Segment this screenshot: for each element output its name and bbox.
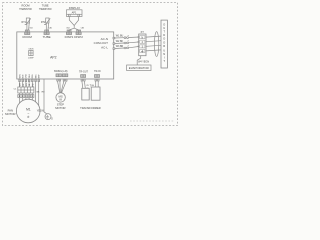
svg-text:EVAPORATOR: EVAPORATOR bbox=[129, 66, 149, 70]
svg-text:N: N bbox=[141, 36, 143, 39]
thermistor RT1 bbox=[25, 18, 31, 25]
svg-text:JUMP: JUMP bbox=[28, 57, 34, 59]
grounding wire YEGN from board bbox=[44, 79, 47, 114]
wire colour labels on wires bbox=[20, 83, 35, 87]
wires XT to outdoor unit bbox=[146, 36, 161, 51]
svg-text:W1 BU: W1 BU bbox=[116, 34, 124, 37]
svg-text:RT1: RT1 bbox=[22, 21, 27, 24]
svg-text:G: G bbox=[51, 117, 53, 120]
outdoor unit bbox=[161, 20, 167, 68]
svg-text:YEGN: YEGN bbox=[37, 109, 44, 112]
svg-text:TUBE: TUBE bbox=[43, 35, 51, 39]
connector designators (tiny) bbox=[29, 28, 84, 30]
jumper JUMP (CN26) bbox=[29, 50, 33, 55]
step motor MS bbox=[56, 93, 65, 102]
terminal 3 bbox=[140, 45, 145, 48]
svg-text:ROOM: ROOM bbox=[21, 3, 29, 7]
svg-text:SWING(-LR): SWING(-LR) bbox=[54, 70, 68, 73]
svg-text:TUBE: TUBE bbox=[42, 3, 49, 7]
svg-text:CN3: CN3 bbox=[81, 28, 84, 30]
svg-text:TR-OUT: TR-OUT bbox=[79, 70, 89, 73]
svg-text:XT: XT bbox=[141, 30, 145, 34]
ground wire YEGN to evaporator bbox=[137, 56, 141, 65]
fan motor M1 bbox=[16, 99, 40, 123]
svg-text:ROOM: ROOM bbox=[23, 35, 33, 39]
connector DISP2 bbox=[76, 30, 81, 35]
terminal 2 bbox=[140, 40, 145, 43]
svg-text:BN7: BN7 bbox=[39, 75, 41, 79]
wire RT2 to connector TUBE bbox=[46, 23, 48, 30]
svg-text:MS: MS bbox=[58, 95, 62, 99]
wire display to connectors DISP1/DISP2 bbox=[69, 17, 79, 31]
svg-text:THERMISTOR: THERMISTOR bbox=[39, 8, 52, 11]
svg-text:GN3: GN3 bbox=[26, 74, 28, 78]
ground symbol G bbox=[45, 114, 51, 120]
wires block to lower connector row bbox=[20, 93, 33, 95]
svg-text:CN1: CN1 bbox=[49, 28, 52, 30]
svg-text:RD: RD bbox=[42, 92, 46, 94]
wires plug row to fan motor bbox=[20, 98, 33, 104]
main board AP2 bbox=[17, 32, 114, 79]
svg-text:BK6: BK6 bbox=[35, 75, 37, 79]
svg-text:DISPLAY: DISPLAY bbox=[69, 6, 81, 10]
svg-text:AC-L: AC-L bbox=[101, 45, 108, 49]
connector ROOM (on board top edge) bbox=[25, 30, 30, 35]
svg-text:YE4: YE4 bbox=[29, 75, 31, 79]
svg-text:RD5: RD5 bbox=[32, 74, 34, 78]
fan motor connector block bbox=[18, 87, 34, 93]
svg-text:MOTOR: MOTOR bbox=[5, 112, 15, 116]
svg-text:~: ~ bbox=[27, 111, 29, 115]
wire RT1 to connector ROOM bbox=[27, 23, 29, 30]
wires board to fan connector block bbox=[20, 82, 39, 108]
svg-text:AP2: AP2 bbox=[50, 55, 57, 59]
svg-text:DISP2: DISP2 bbox=[74, 35, 83, 39]
svg-text:WH1: WH1 bbox=[19, 74, 21, 78]
svg-text:W2 BK: W2 BK bbox=[116, 40, 124, 43]
svg-text:TRANSFORMER: TRANSFORMER bbox=[80, 106, 101, 110]
terminal N bbox=[140, 36, 145, 39]
thermistor RT2 bbox=[44, 18, 50, 25]
svg-text:DISP1: DISP1 bbox=[65, 35, 74, 39]
wires swing connector to step motor bbox=[58, 81, 67, 93]
connector TUBE (on board top edge) bbox=[44, 30, 49, 35]
svg-text:AP1: AP1 bbox=[72, 11, 77, 14]
page dashed border (frame) bbox=[3, 3, 178, 126]
svg-text:RT2: RT2 bbox=[41, 21, 46, 24]
fan motor plug row bbox=[18, 95, 34, 98]
svg-text:THERMISTOR: THERMISTOR bbox=[19, 8, 32, 11]
svg-text:CN2: CN2 bbox=[29, 28, 32, 30]
connector DISP1 bbox=[66, 30, 71, 35]
terminal ground bbox=[140, 49, 145, 52]
evaporator (grounded) bbox=[127, 65, 151, 71]
wire AC-L to terminal 3, brown bbox=[113, 46, 140, 50]
wire AC-N to terminal N, blue bbox=[113, 36, 140, 39]
svg-text:TR-IN: TR-IN bbox=[94, 70, 101, 73]
connector row CN1 (fan motor pins on board bottom edge) bbox=[19, 79, 40, 82]
svg-text:W4 YEGN: W4 YEGN bbox=[138, 61, 149, 64]
svg-text:CN26: CN26 bbox=[28, 49, 34, 51]
wire COM-OUT to terminal 2, black bbox=[113, 41, 140, 44]
svg-text:BU2: BU2 bbox=[23, 75, 25, 79]
svg-text:W3 BR: W3 BR bbox=[116, 45, 124, 48]
cable bundle oval bbox=[154, 32, 158, 57]
pin labels (wire colours, vertical, inside board) bbox=[19, 74, 40, 78]
wires TR-IN to transformer bbox=[96, 81, 99, 87]
wires TR-OUT to transformer bbox=[82, 81, 85, 88]
svg-text:CN4: CN4 bbox=[66, 28, 69, 30]
svg-text:MOTOR: MOTOR bbox=[55, 106, 65, 110]
transformer T bbox=[82, 87, 100, 100]
